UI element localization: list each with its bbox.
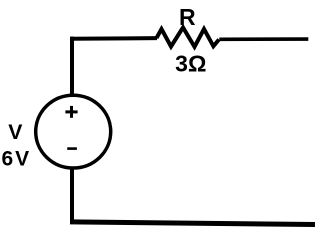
wire: top horizontal from resistor to right end — [219, 37, 308, 41]
wire: top horizontal from source to resistor — [70, 36, 157, 41]
svg-text:R: R — [179, 4, 196, 30]
voltage source V1 circle — [36, 95, 111, 168]
svg-text:3Ω: 3Ω — [175, 51, 206, 77]
wire: bottom horizontal — [70, 222, 315, 225]
svg-text:V: V — [8, 121, 22, 144]
svg-text:6V: 6V — [2, 148, 32, 171]
plus polarity mark — [65, 106, 77, 118]
minus polarity mark — [67, 147, 77, 150]
wire: left vertical from source bottom to bottom wire — [70, 170, 74, 223]
wire: left vertical from top wire to source top — [70, 37, 74, 95]
resistor R zigzag — [157, 28, 220, 47]
